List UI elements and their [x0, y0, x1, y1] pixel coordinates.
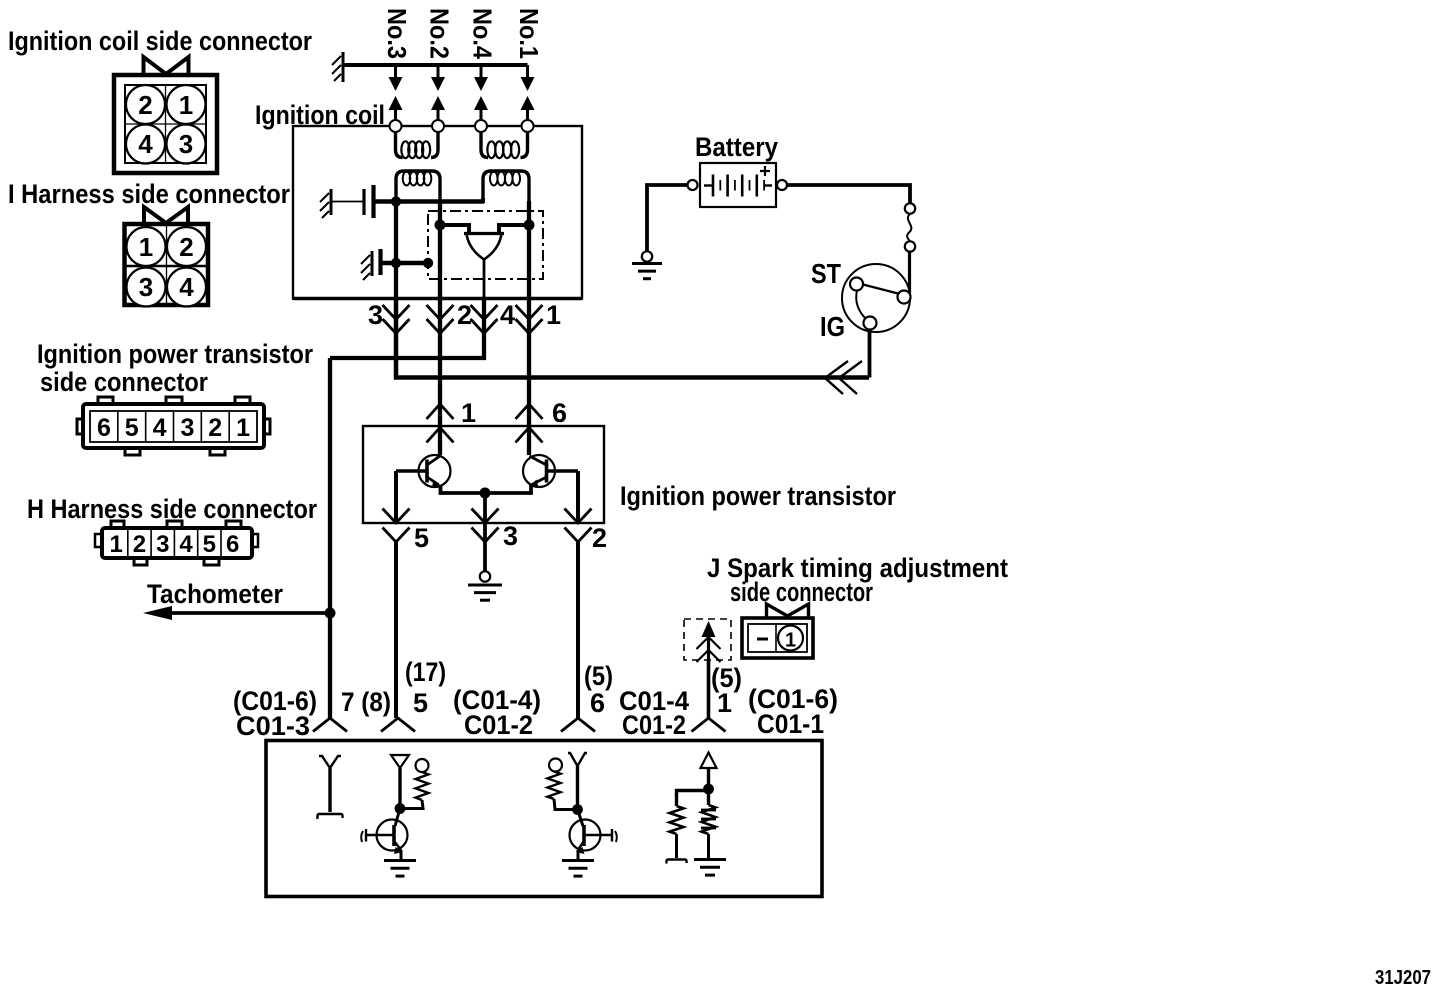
node junction pin2 wire / diode bus [435, 220, 446, 231]
wire IG contact down to coil feed [868, 330, 872, 378]
svg-text:1: 1 [717, 688, 732, 718]
dashed diode module box [428, 211, 543, 279]
battery negative terminal [688, 180, 698, 190]
connector ignition-power-transistor-side (6-pin) [77, 397, 270, 455]
wire spark plug ground bus [343, 63, 528, 67]
wire diode block top bus [440, 225, 529, 234]
spark timing terminal (arrow in dashed box) [684, 619, 731, 665]
ignition switch pivot arc [856, 291, 865, 319]
wire fusible link to ignition switch [908, 252, 911, 299]
dual diode (tulip shape) [467, 234, 502, 260]
svg-text:2: 2 [179, 232, 193, 262]
svg-text:6: 6 [226, 531, 239, 558]
battery ground terminal circle [642, 251, 652, 261]
wire pin 5 down to ECU fork [394, 542, 398, 718]
connector chevrons transistor pin 2 [565, 509, 592, 543]
wire coil pin3 (left primary left end) [394, 202, 398, 299]
ground (ECU divider) [694, 858, 726, 861]
ECU terminal fork C01-2/6 [561, 718, 595, 732]
wire condenser to primary windings [375, 199, 484, 204]
ignition coil secondary winding (cyl 4-1) [481, 131, 528, 158]
svg-text:6: 6 [97, 414, 111, 442]
svg-text:4: 4 [500, 300, 515, 330]
node ECU pin5 junction [395, 803, 406, 814]
wire coil pin4 to ECU (via left run) [330, 299, 484, 359]
wire coil pin3 to ignition switch IG [396, 299, 869, 378]
svg-text:1: 1 [461, 398, 476, 428]
svg-text:5: 5 [203, 531, 216, 558]
battery cells symbol [704, 166, 772, 197]
wire Q2 base to pin 2 [576, 471, 580, 523]
svg-text:7 (8): 7 (8) [341, 687, 391, 717]
connector H harness-side (6-pin) [95, 521, 258, 565]
svg-text:Tachometer: Tachometer [147, 579, 283, 609]
svg-text:3: 3 [139, 272, 153, 302]
svg-text:6: 6 [552, 398, 567, 428]
svg-text:4: 4 [153, 414, 167, 442]
svg-text:No.3: No.3 [382, 8, 412, 59]
wire pin 2 down to ECU fork [576, 542, 580, 718]
node junction pin1 wire / diode bus [524, 220, 535, 231]
tachometer output wire with arrow [143, 606, 330, 620]
transistor Q1 (left power transistor) [396, 455, 451, 488]
svg-text:5: 5 [413, 688, 428, 718]
node terminal at diode block edge [423, 258, 433, 268]
battery positive terminal [777, 180, 787, 190]
wire Q1 emitter to common [441, 485, 486, 493]
ground (ECU Q4) [562, 859, 594, 862]
resistor R2 (divider right leg to ground) [701, 789, 716, 858]
connector I ignition-coil-side (4-pin square) [114, 57, 217, 173]
wire battery negative to ground [647, 185, 688, 251]
svg-text:2: 2 [138, 90, 152, 120]
ignition switch ST contact [850, 278, 863, 291]
svg-text:3: 3 [368, 300, 383, 330]
transistor Q4 (ECU output, right) [570, 810, 617, 861]
svg-text:No.1: No.1 [514, 8, 544, 59]
ignition switch body [842, 264, 910, 332]
connector chevrons transistor pin 6 [516, 404, 543, 443]
wire coil pin2 (left primary right end) [438, 201, 442, 299]
svg-text:C01-2: C01-2 [622, 710, 686, 740]
svg-text:1: 1 [139, 232, 153, 262]
svg-text:2: 2 [133, 531, 146, 558]
svg-text:No.4: No.4 [468, 8, 498, 59]
svg-text:3: 3 [503, 521, 518, 551]
ECU box [266, 741, 822, 897]
ECU driver stage (pin 5 circuit) [391, 755, 429, 809]
connector chevrons transistor pin 1 [427, 404, 454, 443]
ignition coil secondary winding (cyl 3-2) [396, 131, 439, 158]
ignition switch B contact [898, 291, 911, 304]
node junction left primary / condenser [391, 196, 401, 206]
svg-text:2: 2 [457, 300, 472, 330]
svg-text:5: 5 [414, 523, 429, 553]
wire Q2 emitter to common [485, 485, 531, 493]
svg-text:5: 5 [125, 414, 139, 442]
ECU spark timing input (pin 1 circuit) [701, 753, 717, 790]
transistor Q2 (right power transistor) [523, 455, 578, 488]
wire battery positive to fusible link [787, 185, 910, 203]
node emitter common junction [480, 488, 491, 499]
resistor R1 (divider left leg) [666, 806, 686, 864]
ground (spark plug common) [342, 52, 345, 82]
connector chevrons coil pin 3 [383, 305, 410, 334]
svg-text:4: 4 [138, 129, 153, 159]
connector chevrons coil pin 1 [516, 305, 543, 334]
svg-text:1: 1 [179, 90, 193, 120]
transistor Q3 (ECU output, left) [361, 809, 407, 861]
svg-text:ST: ST [811, 258, 841, 289]
ground (power transistor) [468, 584, 502, 587]
ignition switch IG contact [864, 317, 877, 330]
wire to divider resistor [677, 791, 709, 807]
ECU terminal fork C01-2/5 [381, 718, 415, 732]
wire tachometer junction down to ECU fork [328, 613, 332, 718]
connector chevrons coil pin 2 [427, 305, 454, 334]
spark plug No.1 (gap arrows) [521, 65, 535, 120]
node tachometer junction [325, 608, 336, 619]
coil HT terminal circles [390, 120, 534, 132]
ignition switch wiper [863, 285, 898, 294]
condenser to ground (upper) [320, 185, 374, 218]
node ECU pin1 junction [703, 784, 714, 795]
ECU terminal fork C01-1 [692, 718, 726, 732]
svg-text:4: 4 [179, 272, 194, 302]
svg-text:C01-2: C01-2 [464, 710, 533, 740]
svg-text:I Harness side connector: I Harness side connector [8, 179, 290, 209]
wire coil pin1 (right primary right end) [527, 201, 531, 299]
svg-text:side connector: side connector [730, 577, 873, 607]
svg-text:31J207: 31J207 [1375, 967, 1431, 989]
wire left vertical run to tachometer junction [328, 358, 332, 613]
ground terminal circle (pin 3) [480, 571, 490, 581]
ignition coil primary winding (right) [483, 171, 529, 201]
svg-text:(17): (17) [405, 657, 446, 687]
wire spark timing to ECU fork [707, 660, 711, 718]
wire diode output down [483, 260, 486, 299]
svg-text:No.2: No.2 [425, 8, 455, 59]
ignition power transistor box [363, 426, 604, 523]
ignition coil box bottom edge [293, 297, 582, 300]
svg-text:2: 2 [208, 414, 222, 442]
condenser to ground (lower) [361, 249, 381, 280]
svg-text:Battery: Battery [695, 132, 778, 162]
wire lower condenser to diode block [381, 261, 428, 266]
svg-text:IG: IG [820, 311, 845, 342]
svg-text:3: 3 [180, 414, 194, 442]
svg-text:Ignition power transistor: Ignition power transistor [620, 481, 896, 511]
svg-text:C01-1: C01-1 [757, 709, 824, 739]
battery box [700, 163, 776, 207]
svg-text:1: 1 [546, 300, 561, 330]
connector chevrons coil pin 4 [471, 305, 498, 334]
connector I harness-side (4-pin square) [125, 207, 209, 307]
wire right primary left end to condenser bus [481, 198, 485, 203]
inline connector marks on IG feed wire [825, 361, 862, 394]
svg-text:Ignition coil side connector: Ignition coil side connector [8, 26, 312, 56]
wire coil pin2 down to power transistor pin1 [438, 299, 442, 456]
svg-text:3: 3 [179, 129, 193, 159]
spark plug No.4 (gap arrows) [474, 65, 488, 120]
svg-text:(5): (5) [584, 661, 613, 691]
svg-text:1: 1 [785, 630, 796, 652]
svg-text:1: 1 [236, 414, 250, 442]
spark plug No.3 (gap arrows) [389, 65, 403, 120]
svg-text:6: 6 [590, 688, 605, 718]
node ECU pin6 junction [572, 804, 583, 815]
svg-text:4: 4 [179, 531, 193, 558]
svg-text:C01-3: C01-3 [236, 711, 310, 741]
connector J spark-timing-side [742, 604, 813, 658]
ECU terminal fork C01-3 [313, 718, 347, 732]
ignition coil box [293, 126, 582, 299]
ground (ECU Q3) [384, 859, 416, 862]
node junction left primary / lower condenser [391, 258, 401, 268]
wire emitter common to pin 3 / ground [483, 493, 487, 571]
svg-text:1: 1 [109, 531, 122, 558]
svg-text:2: 2 [592, 523, 607, 553]
ground (battery) [632, 262, 662, 265]
svg-text:3: 3 [156, 531, 169, 558]
ignition coil primary winding (left) [396, 171, 440, 201]
svg-text:Ignition power transistor: Ignition power transistor [37, 339, 313, 369]
connector chevrons transistor pin 5 [383, 509, 410, 543]
wire Q1 base to pin 5 [394, 471, 398, 523]
svg-text:side connector: side connector [40, 367, 208, 397]
wire coil pin1 down to power transistor pin6 [527, 299, 531, 456]
fusible link (squiggle) with terminals [905, 203, 915, 251]
connector chevrons transistor pin 3 [472, 509, 499, 543]
ECU input Y terminal (tach circuit) [317, 756, 342, 819]
ECU driver stage (pin 6 circuit) [548, 753, 588, 810]
spark plug No.2 (gap arrows) [431, 65, 445, 120]
